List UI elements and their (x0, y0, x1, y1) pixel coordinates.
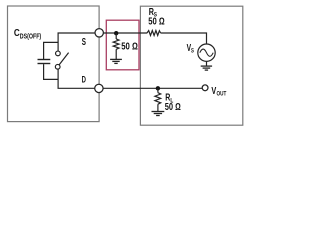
test circuit box (140, 6, 242, 125)
wire switch lower contact to D node (58, 69, 99, 88)
svg-text:50 Ω: 50 Ω (165, 102, 181, 113)
wire junction to capacitor top (44, 42, 59, 59)
capacitor C_DS(OFF) (38, 60, 51, 64)
junction node shunt resistor (114, 31, 118, 35)
svg-text:50 Ω: 50 Ω (121, 42, 138, 53)
wire R_L to ground (157, 104, 159, 111)
svg-text:D: D (82, 75, 86, 85)
switch lower contact (55, 64, 60, 69)
label C_DS(OFF) (14, 28, 42, 40)
red highlight box around shunt resistor (106, 20, 139, 70)
junction node R_L (156, 86, 160, 90)
wire junction to shunt resistor (115, 33, 117, 39)
wire junction to R_L (157, 88, 159, 92)
wire V_S to ground (206, 61, 208, 66)
svg-text:OUT: OUT (217, 91, 227, 98)
port circle S (95, 29, 103, 37)
wire shunt resistor to ground (115, 49, 117, 59)
ground under shunt resistor (110, 59, 122, 63)
svg-text:S: S (191, 48, 194, 55)
ground under V_S (201, 66, 212, 70)
source V_S circle (198, 44, 215, 61)
switch lever (59, 53, 69, 65)
wire R_S to V_S source (161, 33, 207, 44)
svg-text:50 Ω: 50 Ω (148, 17, 165, 28)
terminal circle V_OUT (202, 85, 208, 91)
port circle D (95, 84, 103, 92)
label V_OUT (211, 86, 226, 98)
switch top contact (56, 51, 61, 56)
sine symbol (200, 49, 213, 56)
ground under R_L (152, 112, 165, 116)
label R_S (149, 7, 158, 19)
label V_S (187, 43, 195, 55)
resistor R_L zigzag (155, 93, 161, 105)
switch IC box (8, 6, 100, 122)
svg-text:S: S (82, 37, 87, 48)
svg-text:DS(OFF): DS(OFF) (20, 31, 42, 40)
wire S node to R_S (99, 32, 147, 34)
resistor R_S zigzag (147, 31, 161, 36)
wire S node to switch top contact (58, 33, 99, 51)
label R_L (165, 93, 173, 105)
wire D node to V_OUT (99, 87, 202, 89)
wire capacitor bottom to switch bottom branch (44, 64, 59, 79)
shunt resistor 50 ohm zigzag (113, 39, 119, 49)
